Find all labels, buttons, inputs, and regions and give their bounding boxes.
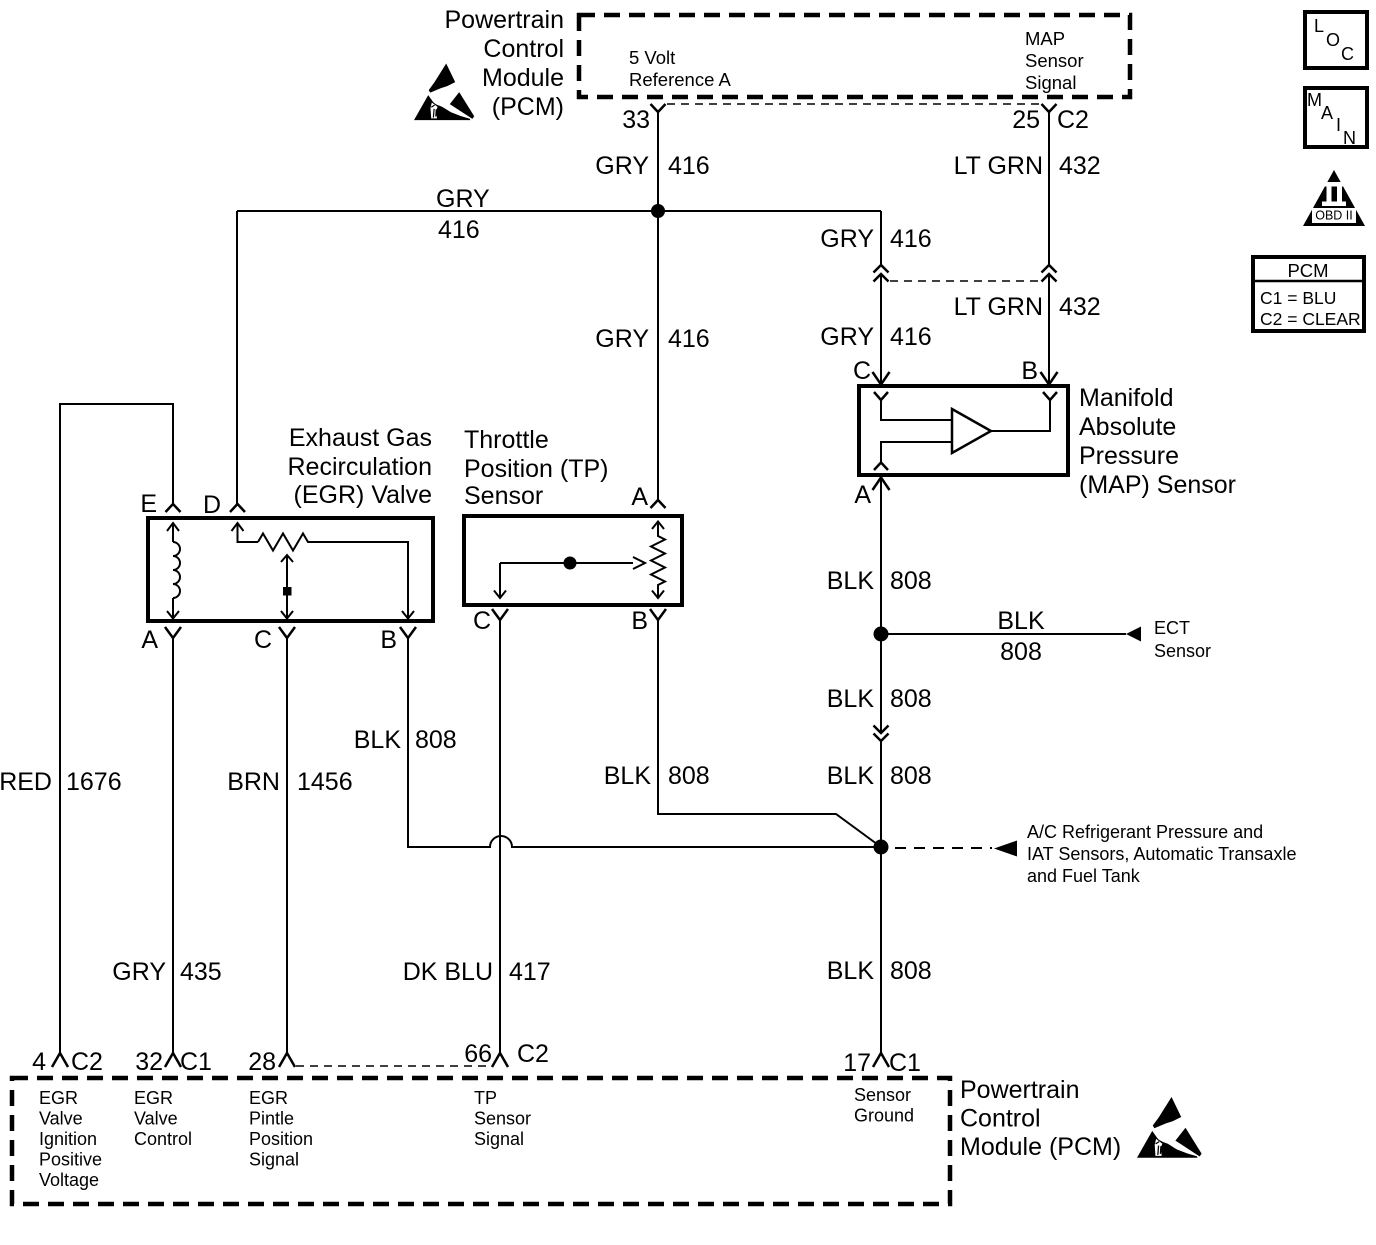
svg-text:TP: TP	[474, 1088, 497, 1108]
op-amp symbol inside MAP sensor	[952, 409, 991, 453]
svg-text:PCM: PCM	[1287, 260, 1328, 281]
svg-text:GRY: GRY	[436, 185, 490, 213]
svg-text:Valve: Valve	[134, 1109, 178, 1129]
MAP pin C internal terminal	[874, 392, 888, 400]
PCM bottom connector box (dashed)	[12, 1078, 950, 1204]
svg-text:808: 808	[668, 762, 710, 790]
svg-text:GRY: GRY	[820, 323, 874, 351]
svg-text:B: B	[1021, 357, 1038, 385]
svg-text:A: A	[141, 626, 158, 654]
svg-text:808: 808	[890, 567, 932, 595]
svg-text:Position (TP): Position (TP)	[464, 455, 608, 483]
ESD warning symbol (bottom)	[1137, 1097, 1202, 1158]
svg-text:C: C	[254, 626, 272, 654]
svg-text:L: L	[1314, 16, 1324, 36]
EGR pin B	[380, 626, 416, 654]
svg-text:GRY: GRY	[595, 325, 649, 353]
pin 25 C2	[1012, 104, 1089, 134]
wire BRN 1456 from EGR pin C to PCM pin 28	[227, 638, 352, 1053]
svg-text:1456: 1456	[297, 768, 353, 796]
svg-text:MAP: MAP	[1025, 28, 1065, 49]
svg-text:B: B	[380, 626, 397, 654]
svg-text:(PCM): (PCM)	[492, 93, 564, 121]
in-line connector on BLK 808 wire	[874, 726, 889, 742]
label: Powertrain Control Module (PCM) top	[445, 6, 565, 121]
svg-text:ECT: ECT	[1154, 618, 1190, 638]
svg-text:Control: Control	[483, 35, 564, 63]
EGR pin D	[203, 491, 245, 519]
svg-text:32: 32	[135, 1048, 163, 1076]
svg-text:and Fuel Tank: and Fuel Tank	[1027, 866, 1141, 886]
svg-text:Sensor: Sensor	[464, 482, 543, 510]
dashed connector line between GRY and LT GRN wires	[890, 280, 1040, 282]
svg-text:Valve: Valve	[39, 1109, 83, 1129]
svg-text:E: E	[140, 490, 157, 518]
svg-text:Module: Module	[482, 64, 564, 92]
pin 33	[622, 104, 665, 134]
svg-text:C1: C1	[180, 1048, 212, 1076]
svg-text:LT GRN: LT GRN	[954, 293, 1043, 321]
pin 17 C1	[843, 1049, 921, 1077]
MAP pin A internal terminal	[874, 463, 888, 471]
svg-text:B: B	[631, 607, 648, 635]
svg-text:Throttle: Throttle	[464, 426, 549, 454]
ESD warning symbol (top)	[414, 64, 474, 121]
svg-text:Sensor: Sensor	[1025, 50, 1084, 71]
MAP sensor U1 box	[859, 386, 1068, 475]
text: EGR Valve Ignition Positive Voltage	[39, 1088, 102, 1190]
svg-text:Control: Control	[134, 1129, 192, 1149]
TP pin A	[631, 483, 665, 511]
svg-text:416: 416	[668, 325, 710, 353]
svg-text:C: C	[1341, 44, 1354, 64]
svg-text:C: C	[473, 607, 491, 635]
svg-text:417: 417	[509, 958, 551, 986]
TP pin B	[631, 607, 666, 635]
svg-text:Ground: Ground	[854, 1106, 914, 1126]
svg-text:4: 4	[32, 1048, 46, 1076]
wire DK BLU 417 from TP pin C to PCM pin 66	[403, 620, 551, 1053]
LOC reference box	[1305, 12, 1367, 68]
OBD II symbol	[1303, 170, 1365, 226]
wire GRY 435 from EGR pin A to PCM pin 32	[112, 638, 221, 1053]
svg-text:A: A	[631, 483, 648, 511]
EGR valve box	[148, 518, 433, 621]
svg-text:Control: Control	[960, 1105, 1041, 1133]
svg-text:416: 416	[890, 323, 932, 351]
text: MAP Sensor Signal	[1025, 28, 1084, 93]
svg-text:Exhaust Gas: Exhaust Gas	[289, 424, 432, 452]
label: Throttle Position (TP) Sensor	[464, 426, 608, 510]
wire BLK 808 from TP pin B to ground splice	[604, 620, 881, 847]
wire BLK 808 from MAP pin A (up arrow)	[827, 478, 932, 734]
text: Sensor Ground	[854, 1085, 914, 1126]
svg-text:BLK: BLK	[827, 567, 875, 595]
svg-text:28: 28	[248, 1048, 276, 1076]
svg-text:C2 = CLEAR: C2 = CLEAR	[1260, 309, 1361, 329]
svg-text:Sensor: Sensor	[854, 1085, 911, 1105]
svg-text:808: 808	[890, 957, 932, 985]
PCM connector legend box	[1253, 257, 1364, 331]
svg-text:O: O	[1326, 30, 1340, 50]
label: Powertrain Control Module (PCM) bottom	[960, 1076, 1121, 1161]
in-line connector on GRY 416 wire	[874, 265, 889, 282]
svg-text:Powertrain: Powertrain	[960, 1076, 1080, 1104]
wire GRY 416 horizontal	[237, 210, 881, 212]
svg-text:A: A	[854, 481, 871, 509]
MAIN reference box	[1305, 88, 1367, 148]
text: EGR Valve Control	[134, 1088, 192, 1149]
wire RED 1676 from EGR pin E to PCM pin 4	[0, 404, 173, 1053]
svg-text:808: 808	[890, 762, 932, 790]
svg-text:BLK: BLK	[827, 685, 875, 713]
svg-text:808: 808	[415, 726, 457, 754]
in-line connector on LT GRN 432 wire	[1042, 265, 1057, 282]
pin 28	[248, 1048, 295, 1076]
svg-text:Sensor: Sensor	[1154, 641, 1211, 661]
svg-text:Voltage: Voltage	[39, 1170, 99, 1190]
svg-text:N: N	[1343, 128, 1356, 148]
EGR pin C	[254, 626, 295, 654]
svg-text:Absolute: Absolute	[1079, 413, 1176, 441]
wire GRY 416 from pin 33 down to TP sensor A	[657, 112, 659, 500]
wire GRY 416 left branch down to EGR pin D	[236, 211, 238, 504]
svg-text:C: C	[853, 357, 871, 385]
svg-text:Signal: Signal	[249, 1150, 299, 1170]
svg-text:808: 808	[1000, 638, 1042, 666]
svg-text:DK BLU: DK BLU	[403, 958, 493, 986]
svg-text:BLK: BLK	[827, 762, 875, 790]
svg-text:C2: C2	[71, 1048, 103, 1076]
label: Exhaust Gas Recirculation (EGR) Valve	[287, 424, 432, 509]
PCM top connector box (dashed)	[579, 15, 1130, 97]
EGR pin A	[141, 626, 181, 654]
svg-text:Recirculation: Recirculation	[287, 453, 432, 481]
svg-text:C1 = BLU: C1 = BLU	[1260, 288, 1336, 308]
svg-text:416: 416	[668, 152, 710, 180]
pin 32 C1	[135, 1048, 212, 1076]
wire BLK 808 to PCM pin 17	[880, 847, 882, 1053]
svg-text:Position: Position	[249, 1129, 313, 1149]
svg-text:Ignition: Ignition	[39, 1129, 97, 1149]
svg-text:5 Volt: 5 Volt	[629, 47, 675, 68]
svg-text:GRY: GRY	[595, 152, 649, 180]
pin 4 C2	[32, 1048, 103, 1076]
svg-text:66: 66	[464, 1040, 492, 1068]
svg-text:Signal: Signal	[1025, 72, 1076, 93]
svg-text:Positive: Positive	[39, 1150, 102, 1170]
wire LT GRN 432 from pin 25	[1048, 112, 1050, 265]
text: EGR Pintle Position Signal	[249, 1088, 313, 1170]
TP pin C	[473, 607, 508, 635]
svg-text:I: I	[1336, 115, 1341, 135]
wire LT GRN 432 to MAP pin B with arrow	[954, 274, 1101, 385]
svg-text:1676: 1676	[66, 768, 122, 796]
node: BLK 808 ground splice	[874, 840, 889, 855]
svg-text:EGR: EGR	[134, 1088, 173, 1108]
wire GRY 416 to MAP pin C with arrow	[820, 274, 931, 385]
svg-text:EGR: EGR	[249, 1088, 288, 1108]
svg-text:Sensor: Sensor	[474, 1109, 531, 1129]
svg-text:A: A	[1321, 103, 1333, 123]
svg-text:LT GRN: LT GRN	[954, 152, 1043, 180]
svg-text:Pressure: Pressure	[1079, 442, 1179, 470]
dashed bus line between pins 33 and 25	[667, 103, 1041, 105]
svg-text:432: 432	[1059, 152, 1101, 180]
svg-text:RED: RED	[0, 768, 52, 796]
dashed wire to A/C refrigerant sensors	[895, 822, 1296, 886]
wire BLK 808 continues to junction	[880, 741, 882, 847]
svg-text:432: 432	[1059, 293, 1101, 321]
svg-text:Powertrain: Powertrain	[445, 6, 565, 34]
svg-text:C2: C2	[1057, 106, 1089, 134]
svg-text:BLK: BLK	[604, 762, 652, 790]
svg-text:(EGR) Valve: (EGR) Valve	[294, 481, 432, 509]
pin 66 C2	[464, 1040, 549, 1068]
svg-text:OBD II: OBD II	[1315, 209, 1353, 223]
svg-text:808: 808	[890, 685, 932, 713]
svg-text:C2: C2	[517, 1040, 549, 1068]
svg-text:Module (PCM): Module (PCM)	[960, 1133, 1121, 1161]
svg-text:25: 25	[1012, 106, 1040, 134]
EGR pintle position wiper (pin C)	[281, 555, 293, 619]
dashed line between pins 28 and 66	[296, 1065, 491, 1067]
wire GRY 416 right branch down to MAP pin C	[880, 211, 882, 265]
label: Manifold Absolute Pressure (MAP) Sensor	[1079, 384, 1236, 499]
svg-text:BLK: BLK	[997, 607, 1045, 635]
svg-text:416: 416	[890, 225, 932, 253]
svg-text:17: 17	[843, 1049, 871, 1077]
throttle position sensor box	[464, 516, 682, 605]
svg-text:Reference A: Reference A	[629, 69, 731, 90]
text: 5 Volt Reference A	[629, 47, 731, 90]
node: BLK 808 splice to ECT sensor	[874, 627, 889, 642]
svg-text:A/C Refrigerant Pressure and: A/C Refrigerant Pressure and	[1027, 822, 1263, 842]
svg-text:BLK: BLK	[827, 957, 875, 985]
wire BLK 808 from EGR pin B with crossover hop	[354, 638, 881, 847]
text: TP Sensor Signal	[474, 1088, 531, 1149]
svg-text:Signal: Signal	[474, 1129, 524, 1149]
svg-text:C1: C1	[889, 1049, 921, 1077]
svg-text:D: D	[203, 491, 221, 519]
svg-text:435: 435	[180, 958, 222, 986]
node: GRY 416 splice junction	[651, 204, 665, 218]
EGR solenoid coil (pin E to A)	[167, 523, 180, 619]
wire BLK 808 to ECT sensor	[881, 607, 1211, 666]
EGR internal resistor (pin D to B)	[232, 523, 415, 619]
svg-text:Manifold: Manifold	[1079, 384, 1174, 412]
svg-text:IAT Sensors, Automatic Transax: IAT Sensors, Automatic Transaxle	[1027, 844, 1296, 864]
svg-text:GRY: GRY	[112, 958, 166, 986]
MAP output line to pin B	[991, 400, 1050, 431]
svg-text:BRN: BRN	[227, 768, 280, 796]
svg-text:Pintle: Pintle	[249, 1109, 294, 1129]
TP wiper arm with junction dot	[494, 557, 645, 599]
svg-text:33: 33	[622, 106, 650, 134]
svg-text:416: 416	[438, 216, 480, 244]
svg-text:EGR: EGR	[39, 1088, 78, 1108]
svg-text:(MAP) Sensor: (MAP) Sensor	[1079, 471, 1236, 499]
EGR pin E	[140, 490, 180, 518]
TP internal resistor	[651, 522, 665, 599]
svg-text:GRY: GRY	[820, 225, 874, 253]
svg-text:M: M	[1307, 90, 1322, 110]
svg-text:BLK: BLK	[354, 726, 402, 754]
